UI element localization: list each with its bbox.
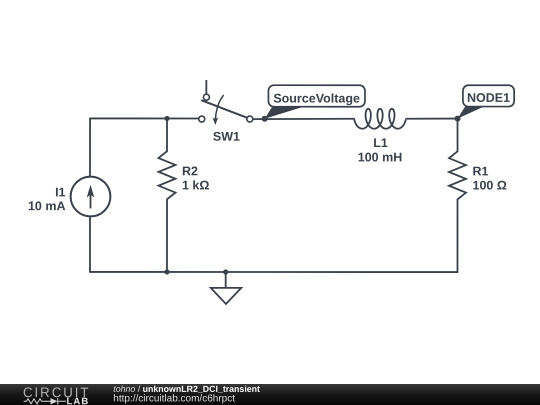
SW1 actuation arc	[215, 95, 223, 120]
wire right vertical upper	[457, 119, 459, 152]
wire right vertical lower	[456, 199, 458, 272]
footer title text	[0, 384, 440, 405]
SW1 blade	[201, 100, 247, 118]
svg-text:R2: R2	[182, 164, 198, 178]
svg-text:10 mA: 10 mA	[28, 199, 66, 213]
svg-text:L1: L1	[373, 136, 388, 150]
node SourceVoltage label	[265, 85, 365, 119]
svg-text:SW1: SW1	[213, 130, 240, 144]
node NODE1 dot	[455, 116, 461, 122]
wire inductor to NODE1	[406, 118, 458, 120]
svg-text:1 kΩ: 1 kΩ	[182, 178, 209, 192]
wire left vertical lower	[89, 217, 91, 272]
SW1 throw terminal	[203, 94, 209, 100]
resistor R1	[449, 151, 507, 199]
svg-text:100 mH: 100 mH	[358, 150, 402, 164]
node junction dot (ground)	[223, 269, 228, 274]
SW1 pole terminal	[199, 116, 205, 122]
CircuitLab logo	[0, 384, 110, 405]
wire R2 top stub	[166, 118, 168, 151]
wire R2 bottom stub	[166, 199, 168, 272]
SW1 arrowhead	[213, 117, 219, 125]
wire switch to inductor	[253, 118, 354, 120]
wire top-left horizontal	[90, 117, 199, 119]
svg-text:100 Ω: 100 Ω	[473, 178, 507, 192]
SW1 right terminal	[247, 116, 253, 122]
svg-text:SourceVoltage: SourceVoltage	[273, 92, 360, 106]
node junction dot (R2 top)	[164, 116, 169, 121]
switch SW1	[199, 80, 253, 144]
inductor L1	[354, 109, 406, 165]
svg-text:http://circuitlab.com/c6hrpct: http://circuitlab.com/c6hrpct	[113, 393, 235, 404]
ground	[211, 272, 242, 304]
resistor R2	[159, 151, 210, 199]
node NODE1 label	[458, 85, 515, 118]
svg-text:NODE1: NODE1	[467, 91, 510, 105]
node junction dot (R2 bottom)	[164, 269, 169, 274]
footer bar	[0, 384, 540, 405]
wire left vertical upper	[89, 118, 91, 176]
svg-text:I1: I1	[55, 185, 65, 199]
current source I1	[28, 177, 110, 217]
node SourceVoltage dot	[262, 116, 268, 122]
wire bottom horizontal	[90, 271, 458, 273]
svg-text:R1: R1	[473, 164, 489, 178]
wire SW1 top stub	[205, 80, 207, 94]
